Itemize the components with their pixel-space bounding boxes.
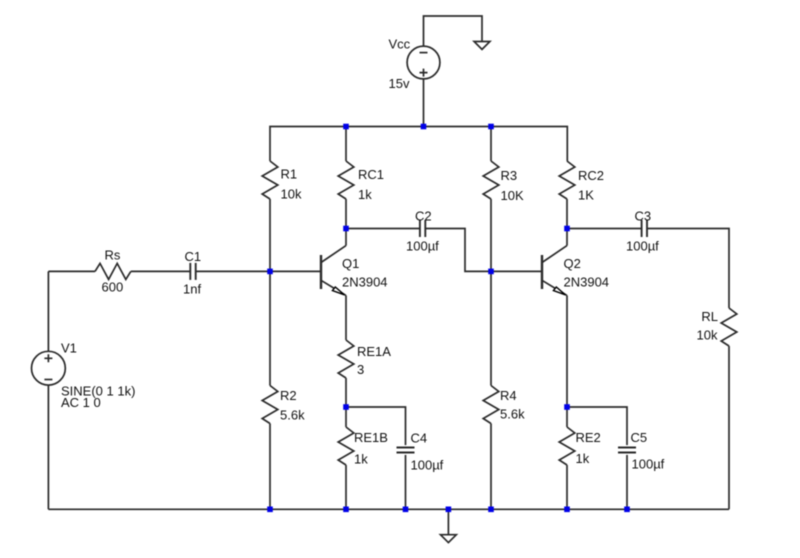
svg-text:AC 1 0: AC 1 0	[61, 395, 101, 410]
resistor RC1	[338, 161, 354, 199]
wire	[405, 455, 407, 509]
junction	[564, 507, 570, 513]
capacitor C3	[642, 220, 647, 237]
capacitor C1	[190, 263, 195, 280]
wire	[567, 407, 627, 445]
junction	[624, 507, 630, 513]
svg-text:1k: 1k	[576, 451, 590, 466]
wire	[48, 508, 729, 510]
wire	[48, 270, 95, 272]
svg-text:Rs: Rs	[105, 248, 121, 263]
resistor R4	[483, 386, 499, 424]
svg-text:2N3904: 2N3904	[564, 275, 610, 290]
svg-text:RE2: RE2	[576, 430, 601, 445]
svg-text:100µf: 100µf	[632, 457, 665, 472]
wire	[47, 385, 49, 509]
svg-text:100µf: 100µf	[411, 457, 444, 472]
junction	[488, 507, 494, 513]
wire	[490, 127, 492, 162]
capacitor C2	[420, 220, 425, 237]
wire	[269, 199, 271, 271]
svg-text:100µf: 100µf	[626, 239, 659, 254]
svg-text:Q2: Q2	[564, 256, 581, 271]
svg-text:3: 3	[357, 362, 364, 377]
svg-text:1nf: 1nf	[183, 281, 201, 296]
svg-text:10k: 10k	[281, 187, 302, 202]
svg-text:1k: 1k	[358, 187, 372, 202]
wire	[424, 16, 483, 46]
svg-text:1k: 1k	[354, 452, 368, 467]
svg-text:10k: 10k	[697, 328, 718, 343]
wire	[345, 229, 347, 246]
svg-text:RE1B: RE1B	[354, 430, 388, 445]
wire	[345, 127, 347, 162]
wire	[490, 271, 492, 385]
svg-text:R1: R1	[281, 167, 298, 182]
svg-text:10K: 10K	[501, 188, 524, 203]
junction node E2 (RE2/C5)	[564, 404, 570, 410]
svg-text:1K: 1K	[578, 188, 594, 203]
ground (top, at Vcc)	[474, 42, 490, 50]
wire	[447, 509, 449, 534]
wire	[567, 228, 642, 230]
wire	[566, 465, 568, 509]
transistor Q2	[542, 246, 567, 296]
junction Vcc rail / R3	[488, 124, 494, 130]
svg-text:100µf: 100µf	[406, 239, 439, 254]
resistor RE2	[559, 427, 575, 465]
resistor RE1A	[338, 340, 354, 378]
wire	[47, 271, 49, 351]
svg-text:RL: RL	[701, 309, 718, 324]
capacitor C4	[397, 448, 415, 453]
resistor Rs	[95, 263, 131, 279]
wire	[345, 407, 347, 427]
resistor R2	[262, 386, 278, 424]
wire	[425, 229, 542, 272]
resistor RC2	[559, 161, 575, 199]
ground (bottom)	[441, 535, 457, 543]
wire	[345, 199, 347, 229]
svg-text:5.6k: 5.6k	[500, 407, 525, 422]
voltage source Vcc	[407, 46, 440, 79]
svg-text:C2: C2	[415, 209, 432, 224]
junction Vcc rail / supply	[421, 124, 427, 130]
junction node B1 (Q1 base)	[267, 269, 273, 275]
wire	[269, 271, 271, 385]
wire	[490, 199, 492, 271]
wire	[490, 424, 492, 510]
wire	[196, 270, 270, 272]
transistor Q1	[321, 246, 346, 296]
svg-text:15v: 15v	[389, 76, 410, 91]
wire	[346, 407, 406, 445]
wire	[626, 455, 628, 509]
wire	[566, 199, 568, 229]
junction node C1 (Q1 collector)	[343, 226, 349, 232]
junction	[267, 507, 273, 513]
wire	[270, 127, 567, 162]
svg-text:RC2: RC2	[578, 168, 604, 183]
svg-text:Q1: Q1	[342, 256, 359, 271]
svg-text:C5: C5	[631, 430, 648, 445]
resistor RL	[721, 308, 737, 346]
capacitor C5	[618, 448, 636, 453]
svg-text:R3: R3	[501, 168, 518, 183]
svg-text:V1: V1	[61, 341, 77, 356]
junction Vcc rail / RC1	[343, 124, 349, 130]
wire	[131, 270, 190, 272]
svg-text:R2: R2	[280, 388, 297, 403]
svg-text:Vcc: Vcc	[389, 37, 411, 52]
wire	[647, 229, 729, 309]
svg-text:600: 600	[102, 280, 124, 295]
junction	[403, 507, 409, 513]
wire	[566, 229, 568, 246]
junction node E1 (RE1A/RE1B/C4)	[343, 404, 349, 410]
svg-text:RE1A: RE1A	[357, 344, 391, 359]
junction	[343, 507, 349, 513]
voltage source V1	[32, 351, 66, 385]
svg-text:2N3904: 2N3904	[342, 275, 388, 290]
wire	[269, 424, 271, 510]
junction node B2 (Q2 base)	[488, 269, 494, 275]
resistor R1	[262, 161, 278, 199]
svg-text:C4: C4	[411, 431, 428, 446]
wire	[423, 79, 425, 127]
wire	[345, 296, 347, 341]
svg-text:RC1: RC1	[358, 167, 384, 182]
resistor R3	[483, 161, 499, 199]
resistor RE1B	[338, 427, 354, 465]
wire	[345, 378, 347, 407]
wire	[270, 270, 321, 272]
wire	[566, 296, 568, 428]
svg-text:5.6k: 5.6k	[280, 408, 305, 423]
wire	[346, 228, 420, 230]
junction ground node 0	[446, 507, 452, 513]
wire	[728, 346, 730, 509]
svg-text:C3: C3	[635, 209, 652, 224]
wire	[345, 465, 347, 509]
svg-text:R4: R4	[500, 388, 517, 403]
junction node C2 (Q2 collector)	[564, 226, 570, 232]
svg-text:C1: C1	[185, 249, 202, 264]
